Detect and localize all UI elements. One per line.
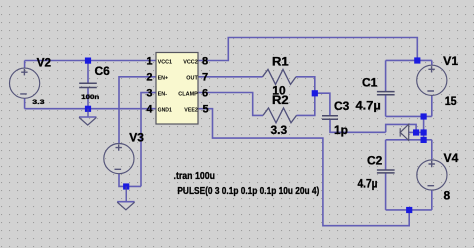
IC U1 body	[156, 53, 198, 125]
svg-text:V2: V2	[37, 56, 52, 70]
svg-text:OUT: OUT	[186, 75, 198, 81]
wire C1 top lead	[385, 60, 387, 91]
IC pin labels	[158, 59, 199, 113]
voltage source V2	[10, 68, 40, 98]
svg-text:1p: 1p	[334, 123, 348, 137]
voltage source V1	[417, 65, 447, 95]
svg-text:C2: C2	[367, 153, 383, 167]
node C6 bottom	[85, 106, 91, 112]
wire pin6 CLAMP down to R2	[198, 93, 263, 116]
node C6 top	[85, 58, 91, 64]
wire V2 top lead	[24, 61, 26, 69]
capacitor C1	[377, 92, 395, 95]
svg-text:8: 8	[444, 189, 451, 203]
svg-text:3.3: 3.3	[271, 123, 288, 137]
svg-text:6: 6	[202, 88, 208, 100]
node C2- V4- VEE2	[406, 207, 412, 213]
wire node to C3	[315, 93, 330, 115]
wire V4 top stub	[431, 140, 433, 160]
svg-text:2: 2	[146, 72, 152, 84]
wire V1 top stub	[431, 60, 433, 65]
svg-text:.tran 100u: .tran 100u	[174, 170, 216, 182]
svg-text:EN+: EN+	[158, 75, 169, 81]
svg-text:PULSE(0 3 0.1p 0.1p 0.1p 10u 2: PULSE(0 3 0.1p 0.1p 0.1p 10u 20u 4)	[177, 186, 319, 197]
wire C2- row to V4-	[386, 209, 432, 211]
ground lead below V3	[125, 186, 127, 201]
wire R1 right lead down to R2	[296, 77, 315, 116]
svg-text:CLAMP: CLAMP	[178, 91, 198, 97]
svg-text:3: 3	[146, 88, 152, 100]
wire V3 minus down	[119, 174, 141, 187]
wire pin8 up to VCC2 rail	[198, 38, 417, 61]
node diode anode	[413, 129, 419, 135]
node V3 ground	[123, 183, 129, 189]
wire mid vertical V1- to V4+	[423, 116, 425, 139]
junction squares	[85, 57, 427, 213]
svg-text:7: 7	[202, 72, 208, 84]
wire C2 top lead	[385, 140, 387, 170]
ground lead below C6	[87, 109, 89, 117]
wire pin7 OUT to R1	[198, 76, 263, 78]
wire C1- row to V1-	[386, 115, 432, 117]
wire V3 node to pin3	[141, 93, 156, 187]
svg-text:15: 15	[445, 94, 457, 108]
wire pin5 VEE2 return path	[198, 109, 409, 226]
svg-text:V4: V4	[444, 151, 459, 165]
wire C2 bottom lead	[385, 173, 387, 210]
resistor R2	[263, 108, 297, 123]
wire jog over diode	[386, 124, 416, 132]
svg-text:3.3: 3.3	[32, 100, 45, 106]
wire top rail V2+ to pin1	[25, 60, 156, 62]
svg-text:8: 8	[202, 55, 208, 67]
voltage source V3	[104, 144, 134, 174]
node C2+ V4+	[421, 137, 427, 143]
svg-text:C6: C6	[95, 64, 111, 78]
pin numbers	[146, 55, 208, 115]
wire C1 bottom lead	[385, 95, 387, 116]
capacitor C6	[79, 83, 97, 87]
svg-text:V1: V1	[443, 54, 458, 68]
wire C6 bottom lead	[87, 88, 89, 109]
svg-text:1: 1	[146, 55, 152, 67]
svg-text:R1: R1	[272, 54, 289, 68]
svg-text:5: 5	[202, 104, 208, 116]
svg-text:4.7µ: 4.7µ	[356, 98, 381, 112]
svg-text:4.7µ: 4.7µ	[358, 177, 378, 191]
svg-text:100n: 100n	[81, 95, 99, 101]
svg-text:4: 4	[146, 104, 153, 116]
wire C2+ row to V4+	[386, 139, 432, 141]
ground below V3	[117, 202, 134, 210]
node R1 R2 C3	[312, 90, 318, 96]
svg-text:VCC1: VCC1	[158, 59, 173, 65]
wire VCC2 node row to C1 and V1	[386, 59, 432, 61]
wire C3 bottom to diode row	[330, 120, 386, 133]
node mid rail	[421, 129, 427, 135]
resistor R1	[263, 69, 297, 84]
wire V2 bottom lead	[24, 98, 26, 109]
svg-text:VEE2: VEE2	[184, 107, 198, 113]
wire V1 bottom stub	[431, 95, 433, 116]
svg-text:C1: C1	[362, 76, 378, 90]
svg-text:C3: C3	[334, 99, 350, 113]
wire pin2 to V3 plus	[119, 77, 156, 144]
svg-text:V3: V3	[129, 131, 144, 145]
svg-text:GND1: GND1	[158, 107, 173, 113]
capacitor C3	[322, 116, 338, 119]
svg-text:VCC2: VCC2	[183, 59, 198, 65]
wire bottom rail V2- to pin4	[25, 108, 156, 110]
svg-text:EN-: EN-	[158, 91, 168, 97]
svg-text:R2: R2	[272, 93, 289, 107]
wire diode anode row	[409, 131, 424, 133]
wire V4 bottom stub	[431, 190, 433, 210]
voltage source V4	[417, 160, 447, 190]
diode D1	[400, 124, 409, 140]
wire C6 top lead	[87, 61, 89, 83]
node C1- V1-	[421, 113, 427, 119]
capacitor C2	[377, 170, 395, 173]
node VCC2 rail	[414, 57, 420, 63]
ground below C6	[79, 117, 96, 125]
